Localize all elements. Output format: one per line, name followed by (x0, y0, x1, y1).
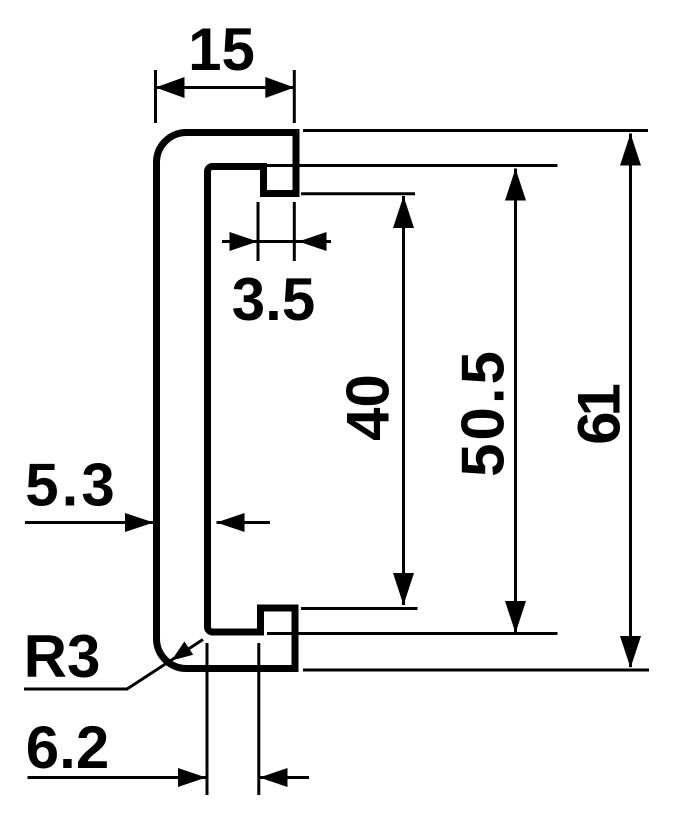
dim 6.2 dimension line right (260, 776, 309, 779)
svg-text:61: 61 (566, 385, 633, 445)
dim 15 extension line right (293, 70, 296, 123)
dim 5.3 dimension line left (25, 521, 154, 524)
dim 40 arrowhead top (393, 196, 414, 228)
svg-text:R3: R3 (24, 623, 101, 690)
dim 50.5 arrowhead bottom (505, 601, 526, 633)
dim 50.5 extension line top (267, 164, 558, 167)
svg-text:3.5: 3.5 (232, 266, 315, 333)
dim 5.3 arrowhead left (125, 513, 154, 532)
profile outline (C-channel cross-section) (157, 133, 297, 669)
dim 6.2 extension line right (257, 643, 260, 795)
dim 15 extension line left (154, 70, 157, 123)
dim 6.2 dimension line left (28, 776, 206, 779)
svg-text:50.5: 50.5 (450, 348, 517, 477)
radius R3 arrowhead (172, 641, 194, 660)
dim 3.5 arrowhead right (299, 232, 327, 251)
dim 15 arrowhead right (265, 77, 294, 98)
dim 40 arrowhead bottom (393, 573, 414, 605)
dim 50.5 dimension line (514, 169, 517, 634)
dim 5.3 arrowhead right (217, 513, 245, 532)
svg-text:40: 40 (335, 374, 402, 441)
dim 61 arrowhead top (620, 134, 641, 166)
dim 50.5 label (450, 348, 517, 477)
dim 3.5 arrowhead left (230, 232, 258, 251)
dim 3.5 extension line left (257, 202, 260, 261)
svg-text:15: 15 (188, 16, 255, 83)
dim 15 dimension line (156, 86, 295, 89)
dim 40 label (335, 374, 402, 441)
dim 50.5 arrowhead top (505, 169, 526, 201)
dim 6.2 arrowhead right (260, 768, 288, 787)
dim 40 extension line bottom (301, 607, 418, 610)
radius R3 label (24, 623, 101, 690)
dim 61 label (566, 385, 633, 445)
dim 5.3 label (25, 452, 117, 519)
radius R3 leader line (24, 640, 203, 690)
svg-text:6.2: 6.2 (26, 714, 109, 781)
dim 6.2 arrowhead left (178, 768, 206, 787)
dim 61 extension line top (303, 129, 648, 132)
dim 61 dimension line (629, 134, 632, 668)
dim 50.5 extension line bottom (267, 632, 558, 635)
dim 40 extension line top (301, 192, 415, 195)
dim 15 label (188, 16, 255, 83)
svg-text:5.3: 5.3 (25, 452, 117, 519)
dim 61 arrowhead bottom (620, 636, 641, 668)
dim 5.3 dimension line right (217, 521, 271, 524)
dim 15 arrowhead left (156, 77, 185, 98)
dim 3.5 dimension line (222, 240, 331, 243)
dim 3.5 label (232, 266, 315, 333)
dim 6.2 extension line left (206, 643, 209, 795)
dim 3.5 extension line right (293, 202, 296, 261)
dim 6.2 label (26, 714, 109, 781)
dim 40 dimension line (402, 196, 405, 605)
dim 61 extension line bottom (303, 669, 649, 672)
